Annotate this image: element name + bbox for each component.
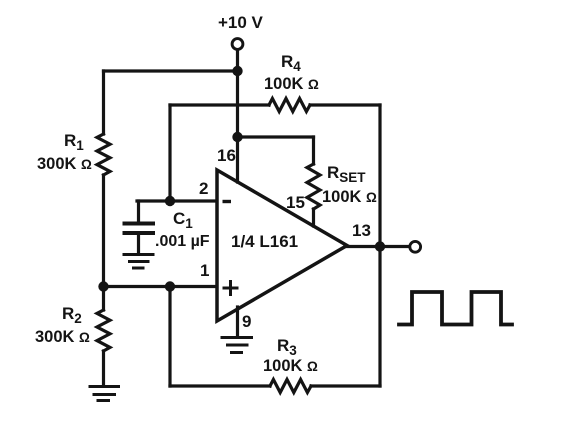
- wire: non-inverting input (pin 1) horizontal: [104, 285, 217, 288]
- svg-text:R3: R3: [277, 336, 297, 358]
- wire: left vertical from supply rail to R1: [102, 71, 105, 134]
- wire: horizontal supply rail to R1 top: [104, 69, 238, 72]
- svg-text:100K Ω: 100K Ω: [263, 357, 318, 375]
- svg-text:R1: R1: [64, 131, 84, 153]
- wire: output from pin 13 apex to output terminal: [345, 245, 410, 248]
- svg-text:1/4 L161: 1/4 L161: [231, 232, 298, 251]
- wire: bottom rail right segment to output vertical: [311, 384, 380, 387]
- capacitor C1 bottom lead: [137, 235, 140, 253]
- wire: bottom rail left segment to R3: [170, 384, 270, 387]
- svg-text:300K Ω: 300K Ω: [37, 155, 92, 173]
- svg-text:16: 16: [217, 146, 236, 165]
- wire: feedback vertical up to R4 rail: [168, 105, 171, 201]
- wire: R1 bottom down to pin-1 node: [102, 175, 105, 287]
- wire: pin-1 node down to R2: [102, 287, 105, 311]
- op-amp minus input symbol: [223, 200, 232, 203]
- svg-text:13: 13: [352, 221, 371, 240]
- wire: RSET top lead: [312, 137, 315, 164]
- junction on pin-1 wire (R3 branch): [165, 281, 175, 291]
- junction at R1/R2/pin-1 node: [98, 281, 108, 291]
- svg-text:100K Ω: 100K Ω: [264, 75, 319, 93]
- op-amp plus input symbol: [224, 282, 237, 295]
- svg-text:100K Ω: 100K Ω: [322, 188, 377, 206]
- junction at output node: [375, 241, 385, 251]
- svg-text:300K Ω: 300K Ω: [35, 328, 90, 346]
- junction at pin-16 / RSET branch: [232, 132, 242, 142]
- wire: pin 9 to ground: [236, 307, 239, 337]
- resistor R1: [97, 134, 110, 175]
- ground below R2: [90, 387, 119, 401]
- wire: R4 rail right segment: [310, 103, 380, 106]
- wire: main vertical from +10V terminal down to op-amp pin 16: [236, 50, 239, 182]
- svg-text:.001 µF: .001 µF: [155, 233, 210, 250]
- wire: RSET branch horizontal from pin-16 junction: [238, 135, 314, 138]
- resistor R3: [270, 380, 311, 393]
- op-amp U1 (1/4 L161): [217, 170, 347, 321]
- resistor RSET: [307, 164, 320, 209]
- svg-text:RSET: RSET: [327, 163, 366, 185]
- wire: vertical from pin-1 junction down to bottom rail: [168, 287, 171, 387]
- svg-text:R4: R4: [281, 52, 301, 74]
- ground at pin 9: [222, 338, 252, 353]
- svg-text:15: 15: [286, 193, 305, 212]
- junction on pin-2 wire (feedback node): [165, 196, 175, 206]
- svg-text:1: 1: [200, 261, 209, 280]
- node: output terminal circle: [410, 241, 421, 252]
- square-wave output waveform symbol: [399, 292, 512, 325]
- wire: right vertical from R4 down through output node to bottom rail: [378, 105, 381, 386]
- svg-text:R2: R2: [62, 304, 82, 326]
- ground below C1: [124, 255, 153, 269]
- svg-text:C1: C1: [173, 209, 193, 231]
- resistor R4: [269, 99, 310, 112]
- node +10V supply terminal: [232, 39, 243, 50]
- svg-text:9: 9: [242, 312, 251, 331]
- resistor R2: [97, 310, 110, 351]
- junction at supply rail / R1 branch: [232, 66, 242, 76]
- wire: R2 bottom to ground: [102, 351, 105, 385]
- wire: R4 rail left segment: [170, 103, 269, 106]
- wire: inverting input (pin 2) horizontal: [137, 199, 216, 202]
- svg-text:2: 2: [199, 179, 208, 198]
- capacitor C1 top lead: [137, 201, 140, 222]
- svg-text:+10 V: +10 V: [218, 13, 264, 32]
- wire: RSET bottom lead to pin 15 on op-amp slope: [312, 209, 315, 226]
- capacitor C1 plates: [125, 224, 154, 234]
